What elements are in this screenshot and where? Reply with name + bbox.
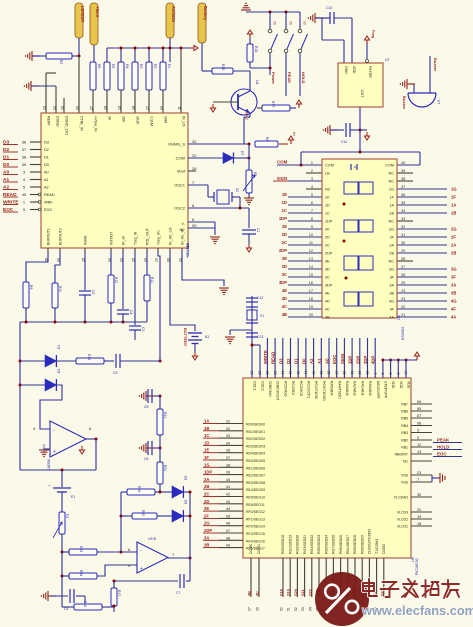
svg-text:1F: 1F xyxy=(451,195,456,200)
svg-text:13: 13 xyxy=(309,257,313,261)
svg-text:S2: S2 xyxy=(289,21,293,25)
svg-text:30: 30 xyxy=(417,493,421,497)
svg-text:INHIB: INHIB xyxy=(84,235,88,245)
svg-text:2E: 2E xyxy=(204,506,209,511)
svg-text:46: 46 xyxy=(226,522,230,526)
svg-text:R2: R2 xyxy=(153,64,157,68)
svg-text:4: 4 xyxy=(311,185,313,189)
svg-text:HOLD: HOLD xyxy=(437,445,449,450)
svg-text:3D: 3D xyxy=(325,268,330,272)
svg-text:R17: R17 xyxy=(271,101,275,107)
svg-text:33: 33 xyxy=(366,371,370,375)
svg-text:RA2/AN2: RA2/AN2 xyxy=(353,381,357,396)
svg-text:RG7/SED25: RG7/SED25 xyxy=(332,535,336,554)
svg-text:3G: 3G xyxy=(389,268,394,272)
svg-text:A2: A2 xyxy=(44,186,49,190)
svg-text:DGND: DGND xyxy=(56,116,60,127)
svg-text:43: 43 xyxy=(226,500,230,504)
svg-text:R6: R6 xyxy=(97,64,101,68)
svg-text:U7: U7 xyxy=(385,58,390,62)
svg-text:KS0062: KS0062 xyxy=(401,326,405,340)
svg-text:PIC16C92: PIC16C92 xyxy=(415,558,419,575)
svg-text:7: 7 xyxy=(417,478,419,482)
svg-text:65: 65 xyxy=(417,407,421,411)
svg-text:D7: D7 xyxy=(240,151,244,155)
svg-text:RA3/AN3: RA3/AN3 xyxy=(345,381,349,396)
svg-text:BUFOUT2: BUFOUT2 xyxy=(59,228,63,245)
svg-text:1A: 1A xyxy=(204,419,209,424)
svg-text:37: 37 xyxy=(401,185,405,189)
svg-text:6: 6 xyxy=(389,373,393,375)
svg-text:+5mV: +5mV xyxy=(95,6,100,17)
svg-text:LS: LS xyxy=(437,99,441,104)
svg-text:4B: 4B xyxy=(325,316,330,320)
svg-text:NC: NC xyxy=(389,180,395,184)
svg-text:A0: A0 xyxy=(325,358,330,364)
svg-text:26: 26 xyxy=(401,273,405,277)
svg-text:22: 22 xyxy=(192,153,197,158)
svg-text:C4: C4 xyxy=(64,607,68,611)
svg-text:RD0/SED00: RD0/SED00 xyxy=(246,423,265,427)
svg-text:13: 13 xyxy=(417,450,421,454)
svg-text:+: + xyxy=(140,566,143,572)
svg-text:1A: 1A xyxy=(451,203,456,208)
svg-text:RE6/SEG11: RE6/SEG11 xyxy=(246,503,265,507)
svg-text:5: 5 xyxy=(417,436,419,440)
svg-text:D0: D0 xyxy=(44,163,49,167)
svg-text:1DP: 1DP xyxy=(279,216,287,221)
svg-text:45: 45 xyxy=(226,514,230,518)
svg-text:34: 34 xyxy=(401,209,405,213)
svg-text:19: 19 xyxy=(118,106,122,110)
svg-text:R31: R31 xyxy=(163,465,167,471)
svg-text:HOLD: HOLD xyxy=(301,72,306,83)
svg-text:PEAK: PEAK xyxy=(287,72,292,83)
svg-text:Freq: Freq xyxy=(371,30,375,39)
svg-text:1C: 1C xyxy=(204,433,209,438)
svg-text:4E: 4E xyxy=(325,292,330,296)
svg-text:RA5/AN4: RA5/AN4 xyxy=(330,381,334,396)
svg-text:3A: 3A xyxy=(451,283,456,288)
svg-text:4B: 4B xyxy=(282,312,287,317)
svg-text:17: 17 xyxy=(309,289,313,293)
svg-text:25: 25 xyxy=(273,371,277,375)
svg-text:EOC: EOC xyxy=(332,355,337,364)
svg-text:RB7: RB7 xyxy=(401,403,408,407)
svg-text:VDD: VDD xyxy=(399,381,403,389)
svg-text:2K: 2K xyxy=(325,228,330,232)
svg-text:VLCDAD: VLCDAD xyxy=(394,496,409,500)
svg-text:3DP: 3DP xyxy=(363,356,368,364)
svg-text:2B: 2B xyxy=(451,251,456,256)
svg-text:1C: 1C xyxy=(282,208,287,213)
svg-text:OSC2: OSC2 xyxy=(174,206,186,211)
svg-text:1E: 1E xyxy=(282,192,287,197)
svg-text:MCLR/VPP: MCLR/VPP xyxy=(376,381,380,400)
svg-text:R9: R9 xyxy=(29,285,33,289)
svg-text:PEAK: PEAK xyxy=(437,438,450,443)
svg-text:3E: 3E xyxy=(282,256,287,261)
svg-text:5: 5 xyxy=(311,193,313,197)
svg-text:27: 27 xyxy=(90,106,94,110)
svg-text:25: 25 xyxy=(401,281,405,285)
svg-text:NC: NC xyxy=(403,460,409,464)
svg-text:2B: 2B xyxy=(204,484,209,489)
svg-text:S3: S3 xyxy=(303,21,307,25)
svg-text:4C: 4C xyxy=(256,591,260,596)
svg-text:OUT: OUT xyxy=(360,90,364,98)
svg-text:RD1/SED01: RD1/SED01 xyxy=(246,430,265,434)
svg-text:RB6: RB6 xyxy=(401,410,408,414)
svg-text:3F: 3F xyxy=(451,275,456,280)
svg-text:4G: 4G xyxy=(389,300,394,304)
svg-text:16: 16 xyxy=(309,281,313,285)
svg-text:16M: 16M xyxy=(164,116,168,123)
svg-text:EOC: EOC xyxy=(44,208,52,212)
svg-text:2A: 2A xyxy=(204,477,209,482)
svg-text:15: 15 xyxy=(309,273,313,277)
svg-text:R3: R3 xyxy=(139,64,143,68)
svg-text:RG1/SED19: RG1/SED19 xyxy=(288,535,292,554)
svg-text:RE5/SEG10: RE5/SEG10 xyxy=(246,496,265,500)
svg-text:C3: C3 xyxy=(141,327,145,331)
svg-text:LB: LB xyxy=(325,172,330,176)
svg-text:R5: R5 xyxy=(111,64,115,68)
svg-text:1D: 1D xyxy=(282,200,287,205)
svg-text:1: 1 xyxy=(373,373,377,375)
svg-text:READ: READ xyxy=(271,352,276,364)
svg-text:3E: 3E xyxy=(325,260,330,264)
svg-text:+: + xyxy=(53,449,56,455)
svg-text:COM2: COM2 xyxy=(382,544,386,554)
svg-text:Buzzer: Buzzer xyxy=(433,58,438,72)
svg-text:4C: 4C xyxy=(282,304,287,309)
svg-text:RB4: RB4 xyxy=(401,424,408,428)
svg-text:Battery: Battery xyxy=(203,6,208,21)
svg-text:VSS: VSS xyxy=(401,481,409,485)
svg-text:E1: E1 xyxy=(71,495,75,499)
svg-text:X2: X2 xyxy=(235,188,239,192)
svg-text:1K: 1K xyxy=(108,116,112,121)
svg-text:DGND_C01: DGND_C01 xyxy=(65,116,69,135)
svg-text:1.11M: 1.11M xyxy=(150,116,154,126)
svg-text:R16: R16 xyxy=(83,601,87,607)
svg-text:RC0/T1OSO: RC0/T1OSO xyxy=(322,381,326,401)
svg-text:C4: C4 xyxy=(129,310,133,314)
svg-text:3C: 3C xyxy=(282,272,287,277)
svg-text:OSC2: OSC2 xyxy=(260,381,264,391)
svg-text:A2: A2 xyxy=(309,358,314,364)
svg-text:RF1/SEG13: RF1/SEG13 xyxy=(246,517,265,521)
svg-text:C11: C11 xyxy=(341,140,347,144)
svg-text:EOC: EOC xyxy=(437,452,447,457)
svg-text:NC: NC xyxy=(180,228,186,232)
svg-text:34: 34 xyxy=(358,371,362,375)
svg-text:Vbuf: Vbuf xyxy=(177,169,186,174)
svg-text:10: 10 xyxy=(61,106,65,110)
svg-text:RA1/AN1: RA1/AN1 xyxy=(360,381,364,396)
svg-text:8: 8 xyxy=(311,217,313,221)
svg-text:S22: S22 xyxy=(308,589,312,596)
svg-text:1DP: 1DP xyxy=(325,220,333,224)
svg-text:RB1: RB1 xyxy=(401,446,408,450)
svg-text:R25: R25 xyxy=(221,64,225,70)
svg-text:39: 39 xyxy=(320,371,324,375)
svg-text:38: 38 xyxy=(226,463,230,467)
svg-text:4F: 4F xyxy=(451,307,456,312)
svg-text:3B: 3B xyxy=(204,543,209,548)
svg-text:27: 27 xyxy=(248,607,252,611)
svg-text:44: 44 xyxy=(281,371,285,375)
svg-text:2G: 2G xyxy=(451,227,457,232)
svg-text:11: 11 xyxy=(178,106,182,110)
svg-text:38: 38 xyxy=(401,177,405,181)
svg-text:11: 11 xyxy=(309,241,313,245)
svg-text:31: 31 xyxy=(226,420,230,424)
svg-text:VDD: VDD xyxy=(391,381,395,389)
svg-text:R4: R4 xyxy=(125,64,129,68)
svg-text:D0: D0 xyxy=(301,358,306,364)
svg-text:A1: A1 xyxy=(44,178,49,182)
svg-text:R33: R33 xyxy=(79,546,83,552)
svg-text:P2: P2 xyxy=(65,514,69,518)
svg-text:42: 42 xyxy=(226,493,230,497)
svg-text:4B: 4B xyxy=(248,591,252,596)
svg-text:NC: NC xyxy=(325,188,331,192)
svg-text:1: 1 xyxy=(311,161,313,165)
svg-text:36: 36 xyxy=(22,140,27,145)
svg-text:RH2/SED28: RH2/SED28 xyxy=(353,535,357,554)
svg-text:C13: C13 xyxy=(257,335,263,339)
svg-text:AV/302V: AV/302V xyxy=(171,6,176,23)
svg-text:COM: COM xyxy=(325,164,334,168)
svg-text:24: 24 xyxy=(401,289,405,293)
svg-text:RC3/SCK: RC3/SCK xyxy=(299,381,303,397)
svg-text:28: 28 xyxy=(104,106,108,110)
svg-text:RA0/AN0: RA0/AN0 xyxy=(368,381,372,396)
svg-text:SIGN: SIGN xyxy=(340,353,345,364)
svg-text:WRb: WRb xyxy=(44,201,52,205)
svg-text:2DP: 2DP xyxy=(355,356,360,364)
svg-text:54: 54 xyxy=(308,607,312,611)
svg-text:R18: R18 xyxy=(254,46,258,52)
svg-text:R12: R12 xyxy=(114,277,118,283)
svg-text:VLCD2: VLCD2 xyxy=(397,518,408,522)
svg-text:RC1/T1OSI: RC1/T1OSI xyxy=(314,381,318,399)
svg-text:R2: R2 xyxy=(59,60,63,64)
svg-text:+MAX13: +MAX13 xyxy=(186,243,190,258)
svg-text:BATTERY: BATTERY xyxy=(183,328,188,347)
svg-text:C8: C8 xyxy=(144,405,148,409)
svg-text:U1: U1 xyxy=(255,80,259,85)
svg-text:RD2/SED02: RD2/SED02 xyxy=(246,437,265,441)
svg-text:44: 44 xyxy=(226,507,230,511)
svg-text:4F: 4F xyxy=(390,308,395,312)
svg-text:+Vfew_IN: +Vfew_IN xyxy=(94,116,98,132)
svg-text:19: 19 xyxy=(417,515,421,519)
svg-text:38: 38 xyxy=(327,371,331,375)
svg-text:9: 9 xyxy=(311,225,313,229)
svg-text:4G: 4G xyxy=(451,299,457,304)
svg-text:RG4/SED22: RG4/SED22 xyxy=(310,535,314,554)
svg-text:34: 34 xyxy=(226,441,230,445)
svg-text:30: 30 xyxy=(192,223,197,228)
svg-text:2C: 2C xyxy=(325,244,330,248)
svg-text:R8: R8 xyxy=(265,137,269,141)
svg-text:WRITE: WRITE xyxy=(263,350,268,364)
svg-text:1DP: 1DP xyxy=(204,470,212,475)
svg-text:2: 2 xyxy=(311,169,313,173)
svg-text:47: 47 xyxy=(226,529,230,533)
svg-text:C5: C5 xyxy=(113,371,117,375)
svg-text:7: 7 xyxy=(311,209,313,213)
svg-text:2DP: 2DP xyxy=(204,528,212,533)
svg-text:RG6/SED24: RG6/SED24 xyxy=(324,535,328,554)
svg-text:10: 10 xyxy=(404,371,408,375)
svg-text:2: 2 xyxy=(381,373,385,375)
svg-text:7seg_IN: 7seg_IN xyxy=(134,231,138,245)
svg-text:NC: NC xyxy=(389,260,395,264)
svg-text:67: 67 xyxy=(417,414,421,418)
svg-text:RG3/SED21: RG3/SED21 xyxy=(303,535,307,554)
svg-text:RE4/SEG09: RE4/SEG09 xyxy=(246,488,265,492)
svg-text:3G: 3G xyxy=(451,267,457,272)
svg-text:39: 39 xyxy=(22,162,27,167)
svg-text:6: 6 xyxy=(311,201,313,205)
svg-text:RG0/SED18: RG0/SED18 xyxy=(281,535,285,554)
svg-text:D1: D1 xyxy=(44,156,49,160)
svg-text:READ: READ xyxy=(44,193,55,197)
svg-text:3DP: 3DP xyxy=(279,280,287,285)
svg-text:2A: 2A xyxy=(389,244,394,248)
svg-text:18: 18 xyxy=(417,522,421,526)
svg-text:161K: 161K xyxy=(136,116,140,125)
svg-text:RA4/T0CKI: RA4/T0CKI xyxy=(337,381,341,399)
svg-text:2D: 2D xyxy=(282,232,287,237)
svg-text:35: 35 xyxy=(401,201,405,205)
svg-text:37: 37 xyxy=(22,147,27,152)
svg-text:1DP: 1DP xyxy=(348,356,353,364)
svg-text:35: 35 xyxy=(350,371,354,375)
svg-text:R17: R17 xyxy=(117,590,121,596)
svg-text:18: 18 xyxy=(132,106,136,110)
svg-text:4D: 4D xyxy=(282,296,287,301)
svg-text:1K: 1K xyxy=(325,196,330,200)
svg-text:40: 40 xyxy=(22,192,27,197)
svg-text:1D: 1D xyxy=(325,204,330,208)
svg-text:2D: 2D xyxy=(204,499,209,504)
svg-text:13: 13 xyxy=(43,106,47,110)
svg-text:IN_HI: IN_HI xyxy=(122,236,126,245)
svg-text:RB3: RB3 xyxy=(401,431,408,435)
svg-text:30: 30 xyxy=(401,241,405,245)
svg-text:39: 39 xyxy=(401,169,405,173)
svg-text:D3: D3 xyxy=(278,358,283,364)
svg-text:32: 32 xyxy=(226,427,230,431)
svg-text:D6: D6 xyxy=(184,500,188,504)
svg-text:2B: 2B xyxy=(389,252,394,256)
svg-text:40: 40 xyxy=(312,371,316,375)
svg-text:A1: A1 xyxy=(317,358,322,364)
svg-text:4E: 4E xyxy=(282,288,287,293)
svg-text:50: 50 xyxy=(280,607,284,611)
svg-text:40: 40 xyxy=(401,161,405,165)
svg-text:2D: 2D xyxy=(325,236,330,240)
svg-text:RF2/SEG14: RF2/SEG14 xyxy=(246,525,265,529)
svg-text:D2: D2 xyxy=(44,148,49,152)
svg-text:2C: 2C xyxy=(282,240,287,245)
svg-text:19: 19 xyxy=(309,305,313,309)
svg-text:1E: 1E xyxy=(204,448,209,453)
svg-text:29: 29 xyxy=(401,249,405,253)
svg-text:X1: X1 xyxy=(260,314,264,318)
svg-text:68: 68 xyxy=(417,422,421,426)
svg-text:IN_LO: IN_LO xyxy=(182,116,186,127)
svg-text:7_IN: 7_IN xyxy=(245,112,249,120)
svg-text:23: 23 xyxy=(417,471,421,475)
svg-text:49: 49 xyxy=(226,544,230,548)
svg-text:RF0/SEG12: RF0/SEG12 xyxy=(246,510,265,514)
svg-text:1G: 1G xyxy=(451,187,457,192)
svg-text:36: 36 xyxy=(343,371,347,375)
svg-text:52: 52 xyxy=(294,607,298,611)
svg-text:39: 39 xyxy=(226,471,230,475)
svg-text:3DP: 3DP xyxy=(325,284,333,288)
svg-text:3B: 3B xyxy=(451,291,456,296)
svg-text:4A: 4A xyxy=(451,315,456,320)
svg-text:VLCD1: VLCD1 xyxy=(397,525,408,529)
svg-text:D5: D5 xyxy=(184,476,188,480)
svg-text:4DP: 4DP xyxy=(371,356,376,364)
svg-text:2A: 2A xyxy=(451,243,456,248)
svg-text:27: 27 xyxy=(401,265,405,269)
svg-text:3: 3 xyxy=(417,429,419,433)
svg-text:SIGN: SIGN xyxy=(277,176,287,181)
svg-text:GND: GND xyxy=(344,66,348,74)
svg-text:31: 31 xyxy=(401,233,405,237)
svg-text:1B: 1B xyxy=(204,426,209,431)
svg-text:38: 38 xyxy=(22,155,27,160)
svg-text:3: 3 xyxy=(311,177,313,181)
svg-text:D2: D2 xyxy=(286,358,291,364)
svg-text:18: 18 xyxy=(309,297,313,301)
svg-text:CHECKIN: CHECKIN xyxy=(268,381,272,397)
svg-text:2DP: 2DP xyxy=(279,248,287,253)
svg-text:U9 A: U9 A xyxy=(42,444,46,452)
svg-text:41: 41 xyxy=(304,371,308,375)
svg-text:29: 29 xyxy=(256,607,260,611)
svg-text:33: 33 xyxy=(226,434,230,438)
svg-text:U5: U5 xyxy=(397,315,401,320)
svg-text:Power: Power xyxy=(271,72,276,84)
svg-text:4D: 4D xyxy=(325,300,330,304)
svg-text:RB5: RB5 xyxy=(401,417,408,421)
svg-text:26: 26 xyxy=(266,371,270,375)
svg-text:12: 12 xyxy=(309,249,313,253)
svg-text:3A: 3A xyxy=(204,535,209,540)
svg-text:17: 17 xyxy=(146,106,150,110)
svg-text:3F: 3F xyxy=(390,276,395,280)
svg-text:41: 41 xyxy=(226,485,230,489)
svg-text:R13: R13 xyxy=(87,354,91,360)
svg-text:2DP: 2DP xyxy=(325,252,333,256)
svg-text:S1: S1 xyxy=(273,21,277,25)
svg-text:RG5/SED23: RG5/SED23 xyxy=(317,535,321,554)
svg-text:R1: R1 xyxy=(167,64,171,68)
svg-text:C1: C1 xyxy=(256,228,260,232)
svg-text:3A: 3A xyxy=(389,284,394,288)
svg-text:OSC1: OSC1 xyxy=(253,381,257,391)
